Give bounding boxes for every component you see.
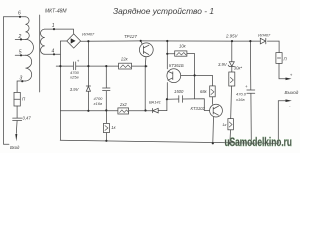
svg-text:10к: 10к <box>179 43 187 48</box>
svg-text:3.9V: 3.9V <box>218 62 228 67</box>
svg-text:470.0: 470.0 <box>236 91 247 96</box>
svg-text:3.9V: 3.9V <box>70 87 80 92</box>
svg-text:1500: 1500 <box>174 89 184 94</box>
svg-text:х25в: х25в <box>69 75 79 80</box>
svg-text:uSamodelkino.ru: uSamodelkino.ru <box>225 135 293 149</box>
svg-text:П: П <box>284 56 288 61</box>
svg-text:2: 2 <box>18 34 22 40</box>
svg-text:4: 4 <box>52 49 55 55</box>
svg-text:МКТ-48М: МКТ-48М <box>45 9 67 15</box>
svg-text:3: 3 <box>20 75 23 81</box>
svg-text:ТР127: ТР127 <box>124 34 137 39</box>
svg-text:Вход: Вход <box>10 145 20 150</box>
svg-text:ИЛ407: ИЛ407 <box>82 31 95 36</box>
svg-text:0,47: 0,47 <box>23 116 32 121</box>
svg-text:5: 5 <box>19 50 22 56</box>
svg-text:+: + <box>245 84 248 89</box>
svg-text:6: 6 <box>18 11 21 17</box>
svg-text:Зарядное устройство - 1: Зарядное устройство - 1 <box>113 6 214 16</box>
svg-text:1к: 1к <box>111 125 116 130</box>
svg-text:2.95V: 2.95V <box>225 34 239 39</box>
svg-text:1к: 1к <box>222 122 227 127</box>
svg-text:1: 1 <box>52 23 55 29</box>
svg-text:-: - <box>289 104 291 109</box>
svg-text:х16в: х16в <box>93 101 103 106</box>
svg-text:П: П <box>22 96 26 101</box>
svg-text:х16в: х16в <box>235 97 245 102</box>
svg-text:Выход: Выход <box>285 90 299 95</box>
svg-text:2х2: 2х2 <box>119 102 127 107</box>
svg-text:ИЛ407: ИЛ407 <box>258 32 271 37</box>
svg-text:ВА141: ВА141 <box>149 100 161 105</box>
svg-text:30к*: 30к* <box>234 65 243 70</box>
svg-text:22к: 22к <box>120 56 129 61</box>
svg-text:КТ361Б: КТ361Б <box>169 63 184 68</box>
svg-text:68к: 68к <box>200 89 208 94</box>
svg-text:КТ3102: КТ3102 <box>191 106 206 111</box>
svg-text:+: + <box>290 73 293 78</box>
svg-text:+: + <box>77 59 80 64</box>
